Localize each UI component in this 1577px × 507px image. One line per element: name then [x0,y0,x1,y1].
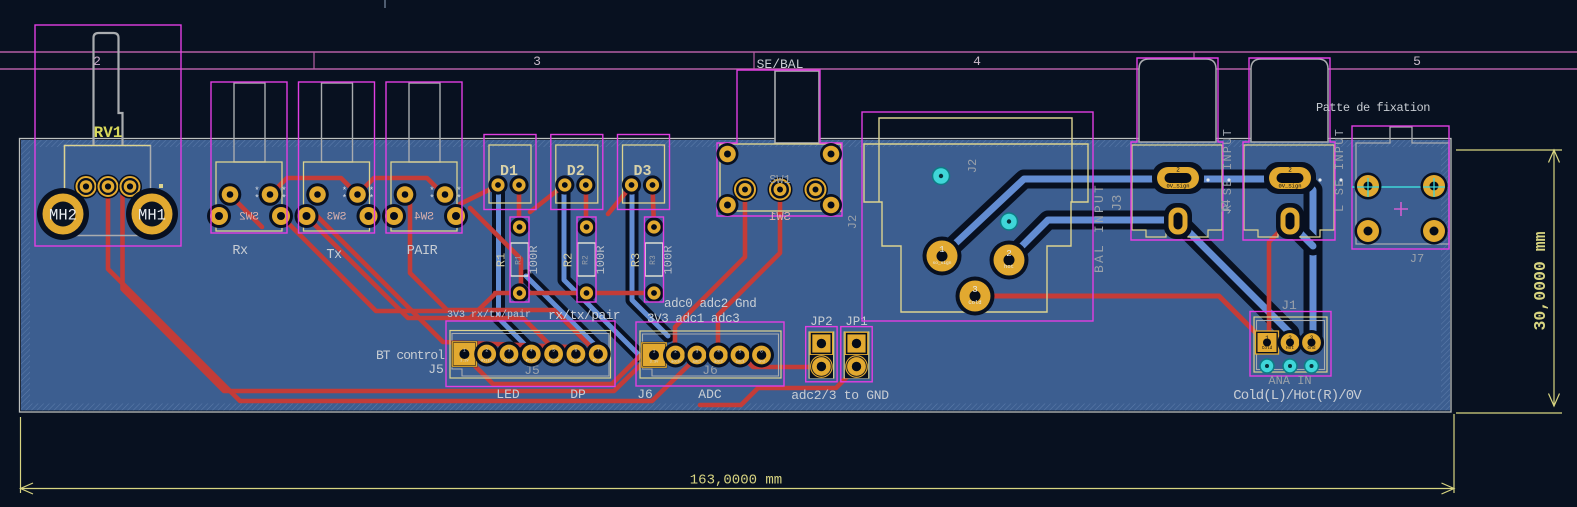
pad SW1 2 [768,177,793,202]
jumper JP1 pad2 [845,355,868,378]
switch SW1 mirrored silk ref [769,210,791,224]
pad J3 sleeve oval [1164,203,1192,239]
connector J5 silk outline [450,331,611,379]
switch SW4 shaft outline [409,83,440,162]
courtyard J1 [1250,312,1331,377]
LED D1 label [500,163,518,180]
label J4 ref [1219,199,1234,215]
jumper JP1 silk outline [844,332,869,378]
pad RV1 3 [118,175,142,199]
mounting hole MH2 [37,188,89,240]
wire red RV1.2 rail to J6.1 [123,189,652,391]
label J3 ref [1110,195,1126,212]
wire bal input blue track J2.2 to J3 sleeve [1009,220,1177,259]
pad J7 1 [1355,173,1382,200]
svg-text:1: 1 [463,348,466,354]
svg-text:PrLED: PrLED [526,359,537,364]
dimension 163mm extension left [20,417,22,493]
wire red RV1.3 rail to J6.3 [108,190,697,401]
switch SW2 net label [232,244,248,259]
svg-text:LED: LED [496,387,520,402]
switch SW4 body outline [391,162,457,231]
label DP [570,387,586,402]
svg-text:*: * [456,194,461,204]
label Cold(L)/Hot(R)/0V [1233,388,1362,404]
via J1 2 [1283,359,1297,373]
switch SW1 ref fab [769,173,791,187]
net label SE/BAL [757,57,804,72]
svg-text:Hot: Hot [1286,346,1294,351]
svg-text:7: 7 [597,348,600,354]
pad J3 tip oval [1152,162,1204,194]
wire red PAIR.3 to J5.7 [406,198,598,354]
switch SW2 pin1 pad [219,183,242,206]
svg-text:SW3: SW3 [327,212,347,224]
jumper JP2 pad2 [810,355,833,378]
svg-text:R2: R2 [562,253,576,267]
svg-text:J3: J3 [1110,195,1126,212]
wire red chain Rx to Tx top pads [270,178,358,195]
jumper JP2 label [810,315,833,329]
connector J5 pads [451,341,611,367]
svg-text:5: 5 [739,349,742,355]
svg-text:adc1: adc1 [693,360,702,365]
svg-text:6: 6 [760,349,763,355]
label BT control [376,348,445,363]
wire red D3.2 to R3.1 [653,187,655,226]
pad SW1 3 [803,177,828,202]
connector J1 silk outline [1254,317,1327,372]
LED D3 body outline [623,145,665,203]
switch SW2 body outline [216,162,282,231]
silk dots J3 [1206,178,1230,181]
resistor R3 pad1 [644,217,663,236]
svg-text:3: 3 [696,349,699,355]
LED D2 anode pad [576,175,595,194]
wire red chain Tx to PAIR top pads [357,178,444,195]
svg-text:Cold: Cold [1262,346,1273,351]
LED D1 anode pad [509,175,528,194]
wire red J4 sleeve to J1.1 [1267,222,1290,342]
pad SW1 1 [733,177,758,202]
pad J2 3 [956,277,995,316]
switch SW4 pin4 pad [444,204,468,228]
svg-text:163,0000 mm: 163,0000 mm [690,473,782,489]
courtyard R3 [645,217,664,302]
via J1 1 [1260,359,1274,373]
svg-text:BAL INPUT: BAL INPUT [1092,183,1107,273]
svg-text:adc0 adc2 Gnd: adc0 adc2 Gnd [664,297,756,311]
svg-text:3: 3 [1310,335,1314,342]
connector J1 fab outline [1257,321,1325,370]
label LED [496,387,520,402]
svg-text:Gnd: Gnd [1308,346,1316,351]
switch SW4 mirrored silk ref [414,212,434,224]
via near J2 pin2 [1001,213,1018,230]
wire red into D1.1 [460,186,497,204]
courtyard J6 [636,322,784,386]
label J3 [1221,128,1235,212]
connector J5 ref fab [524,363,540,378]
svg-text:adc0: adc0 [671,360,680,365]
svg-text:Pr_DP: Pr_DP [593,359,604,364]
svg-text:SW4: SW4 [414,212,434,224]
svg-text:JP1: JP1 [845,315,868,329]
pad SW1 mount2 [820,143,842,165]
label adc2/3 to GND [791,388,889,403]
jumper JP1 pad1 [845,332,868,355]
switch SW2 shaft outline [234,83,265,162]
wire red R1.2 drop to J5 rail [495,291,519,296]
connector J7 body outline [1356,127,1449,244]
svg-text:TxLED: TxLED [504,360,515,364]
sheet frame horizontal lines [0,52,1577,69]
pad J1 3 [1299,330,1324,355]
pad J1 2 [1278,330,1303,355]
wire red R1 rail down-left [470,294,495,318]
svg-text:*: * [342,194,347,204]
svg-text:5: 5 [1413,54,1421,69]
wire blue track diag to J5 pad7 [526,276,597,347]
sheet frame column numbers [93,54,1421,69]
pad J7 2 [1421,173,1448,200]
switch SW3 mirrored silk ref [327,212,347,224]
svg-text:2: 2 [1176,167,1180,174]
zone hatch border [21,140,1450,411]
label J7 ref [1410,252,1424,266]
wire red J2.3 cold to J1.1 [978,296,1265,342]
svg-text:1: 1 [653,349,656,355]
svg-text:SW2: SW2 [239,212,259,224]
svg-text:2: 2 [1288,335,1292,342]
courtyard J3 [1131,58,1223,240]
svg-text:JP2: JP2 [810,315,833,329]
switch SW3 body outline [304,162,370,231]
dimension 163mm extension right [1453,414,1455,493]
svg-text:Patte de fixation: Patte de fixation [1316,101,1430,115]
svg-text:R3: R3 [629,253,643,267]
switch SW4 courtyard [386,82,462,233]
silkscreen dot right of RV1 pads [159,184,163,188]
svg-text:SW1: SW1 [769,173,791,187]
via near J2 pin1 [933,168,950,185]
wire red into D2.1 [530,186,563,212]
svg-text:DP: DP [570,387,586,402]
svg-text:J2: J2 [846,215,860,229]
wire red J6.5 to JP2.2 [742,356,818,367]
wire red D2.2 to R2.1 [584,187,589,226]
resistor R1 pad1 [510,217,529,236]
svg-text:2: 2 [1288,167,1292,174]
pad J2 1 [923,237,962,276]
svg-text:3.3V: 3.3V [460,360,469,364]
via J1 3 [1305,359,1319,373]
svg-text:adc3: adc3 [736,360,745,365]
jumper JP1 label [845,315,868,329]
courtyard J2 [862,112,1093,321]
switch SW2 pin4 pad [269,204,293,228]
wire red diag through R1 body [470,208,521,290]
wire blue track J4 sleeve stub [1290,223,1313,246]
wire bal input blue track J2.1 to J1.3 [942,179,1313,342]
svg-text:0V_Sign: 0V_Sign [1278,183,1301,190]
courtyard J4 [1243,58,1335,240]
sheet frame column ticks [314,0,1194,69]
resistor R3 ref fab [649,255,658,265]
resistor R2 pad2 [577,283,596,302]
pad SW1 mount3 [717,194,739,216]
svg-text:MH2: MH2 [49,207,77,225]
jumper JP2 silk outline [809,332,834,378]
connector J4 body silk outline [1244,145,1334,237]
switch SW4 pin3 pad [382,204,406,228]
resistor R3 value silk [662,246,676,275]
pad RV1 2 [96,175,120,199]
switch SW4 pin2 pad [434,183,457,206]
label J5 net [428,362,444,377]
svg-text:Tx: Tx [326,248,342,263]
svg-text:J1: J1 [1281,298,1297,313]
svg-text:so_sign: so_sign [933,260,952,266]
switch SW4 pin1 pad [394,183,417,206]
pad J7 3 [1355,218,1382,245]
wire red into D3.1 [608,186,631,214]
jumper JP1 courtyard [841,327,872,382]
svg-text:Gnd: Gnd [758,360,764,365]
svg-text:3: 3 [508,348,511,354]
label ANA IN [1268,374,1311,388]
svg-text:Cold(L)/Hot(R)/0V: Cold(L)/Hot(R)/0V [1233,388,1362,404]
svg-text:J7: J7 [1410,252,1424,266]
courtyard R1 [510,217,529,302]
svg-text:4: 4 [530,348,533,354]
wire red JP1.2 to gnd rail [700,368,856,405]
svg-text:PAIR: PAIR [407,244,438,259]
svg-text:3: 3 [972,285,977,295]
jumper JP2 pad1 [810,332,833,355]
switch SW1 knob outline [775,71,819,143]
svg-text:Tx_DP: Tx_DP [571,360,582,364]
wire red Rx.3 stub [231,196,262,227]
resistor R3 body outline [645,243,663,276]
pad SW1 mount1 [717,143,739,165]
switch SW3 pin4 pad [357,204,381,228]
svg-text:ADC: ADC [698,387,722,402]
svg-text:3: 3 [533,54,541,69]
switch SW4 net label [407,244,438,259]
LED D2 label [567,163,585,180]
label Patte de fixation [1316,101,1430,115]
potentiometer RV1 body outline [65,146,151,236]
svg-text:SW1: SW1 [769,210,791,224]
wire blue track D3 column to J6 area [632,193,668,336]
pad J2 2 [990,241,1029,280]
wire blue track J3 sleeve to J1.2 [1178,221,1290,342]
svg-text:3.3V: 3.3V [650,361,659,365]
board copper zone fill [21,140,1450,411]
connector J6 silk outline [640,331,781,378]
resistor R1 value silk [527,246,541,275]
mounting hole MH1 [126,188,178,240]
svg-text:adc2/3 to GND: adc2/3 to GND [791,388,889,403]
svg-text:RV1: RV1 [94,124,123,142]
wire red Tx.4 to J5.5 [306,216,553,354]
pad J4 tip oval [1264,162,1316,194]
svg-text:J5: J5 [428,362,444,377]
LED D2 cathode pad [555,175,574,194]
connector J2 ref fab [966,159,980,173]
courtyard D3 [618,135,670,210]
svg-text:R3: R3 [649,255,658,265]
courtyard RV1 [35,25,181,246]
switch SW3 pin1 pad [306,183,329,206]
connector J2 ref fab left [846,215,860,229]
svg-text:1: 1 [939,245,944,255]
switch SW3 shaft outline [322,83,353,162]
svg-text:5: 5 [552,348,555,354]
dimension 30mm extension top [1456,149,1562,151]
label ADC [698,387,722,402]
svg-text:3V3 rx/tx/pair: 3V3 rx/tx/pair [447,309,531,321]
wire cyan J7 track [1352,186,1446,188]
dimension 30mm line [1549,150,1560,406]
wire blue track D2 column to J6 pad1 [564,193,640,356]
svg-text:L SE INPUT: L SE INPUT [1333,128,1347,212]
svg-text:Cold: Cold [968,299,981,306]
wire red SW1.3 to J6.4 [718,194,780,353]
LED D3 anode pad [643,175,662,194]
svg-text:hot: hot [1004,263,1014,270]
switch SW3 polarity asterisks [342,186,374,204]
svg-text:2: 2 [1006,249,1011,259]
switch SW4 polarity asterisks [429,186,461,204]
svg-text:rx/tx/pair: rx/tx/pair [548,308,620,323]
silk 3V3 rx/tx/pair [447,309,531,321]
svg-text:adc2: adc2 [714,360,723,365]
LED D3 cathode pad [622,175,641,194]
svg-text:2: 2 [485,348,488,354]
svg-text:R1: R1 [495,253,509,267]
svg-text:BT control: BT control [376,348,445,363]
connector J6 ref fab [702,363,718,378]
wire red SW1.2 to J6.2 [675,194,745,353]
resistor R2 body outline [578,243,596,276]
wire blue track D1 column to J5 pad4 [499,193,535,354]
svg-text:4: 4 [973,54,981,69]
pad J1 1 [1255,331,1279,355]
resistor R2 ref silk [562,253,576,267]
connector J6 pads [641,342,774,368]
potentiometer RV1 shaft outline [94,33,123,145]
svg-text:RxLED: RxLED [481,360,492,364]
connector J5 fab outline [452,334,609,377]
svg-text:J2: J2 [966,159,980,173]
label J1 ref [1281,298,1297,313]
wire red diag to J5.6 [317,216,575,354]
svg-text:4: 4 [717,349,720,355]
label J6 net [637,387,653,402]
LED D1 cathode pad [488,175,507,194]
svg-text:3V3 adc1 adc3: 3V3 adc1 adc3 [647,312,739,326]
silk rx/tx/pair [548,308,620,323]
switch SW2 polarity asterisks [254,186,286,204]
svg-text:30,0000 mm: 30,0000 mm [1531,231,1550,330]
LED D1 body outline [489,145,531,203]
courtyard SW1 [717,70,842,216]
pad SW1 mount4 [820,194,842,216]
board edge cuts outline [20,139,1452,413]
courtyard J7 [1352,126,1449,249]
switch SW2 pin3 pad [207,204,231,228]
svg-text:*: * [254,194,259,204]
courtyard D2 [551,135,603,210]
connector J3 body silk outline [1132,145,1222,237]
svg-text:1: 1 [1265,335,1269,342]
switch SW2 courtyard [211,82,287,233]
connector J4 barrel above board [1251,59,1328,142]
wire red Rx.4 short diag [281,216,447,311]
svg-text:*: * [281,194,286,204]
courtyard R2 [577,217,596,302]
svg-text:Rx: Rx [232,244,248,259]
svg-text:R1: R1 [515,255,524,265]
switch SW3 pin2 pad [346,183,369,206]
resistor R1 pad2 [510,283,529,302]
pad J4 sleeve oval [1276,203,1304,239]
svg-text:MH1: MH1 [138,207,166,225]
svg-text:J4: J4 [1219,199,1234,215]
resistor R1 ref fab [515,255,524,265]
svg-text:2: 2 [674,349,677,355]
svg-text:ANA IN: ANA IN [1268,374,1311,388]
wire red J5.1 to J6.1 3V3 [464,355,654,384]
jumper JP2 courtyard [806,327,837,382]
crosshair J7 anchor [1394,202,1408,216]
silk adc0 adc2 Gnd [664,297,756,311]
resistor R1 ref silk [495,253,509,267]
label BAL INPUT [1092,183,1107,273]
svg-text:6: 6 [575,348,578,354]
svg-text:*: * [429,194,434,204]
courtyard J5 [446,321,615,387]
connector J3 barrel above board [1139,59,1216,142]
resistor R2 ref fab [582,255,591,265]
LED D2 body outline [556,145,598,203]
connector J2 body outline [864,118,1088,312]
dimension 163mm text [690,473,782,489]
connector J6 fab outline [643,334,779,376]
switch SW3 courtyard [299,82,375,233]
resistor R3 ref silk [629,253,643,267]
potentiometer RV1 label [94,124,123,142]
LED D3 label [633,163,651,180]
switch SW3 net label [326,248,342,263]
courtyard D1 [484,135,536,210]
dimension 163mm line [21,483,1455,494]
svg-text:Rx_DP: Rx_DP [548,360,559,364]
switch SW1 body outline [720,144,841,211]
wire red R1.2 R2.2 R3.2 rail [519,291,654,296]
wire red D1.2 to R1.1 [517,187,522,226]
switch SW2 mirrored silk ref [239,212,259,224]
resistor R2 pad1 [577,217,596,236]
pad RV1 1 [74,175,98,199]
switch SW2 pin2 pad [259,183,282,206]
resistor R1 body outline [511,243,529,276]
svg-text:*: * [369,194,374,204]
dimension 30mm text [1531,231,1550,330]
silk dots J4 [1318,178,1342,181]
